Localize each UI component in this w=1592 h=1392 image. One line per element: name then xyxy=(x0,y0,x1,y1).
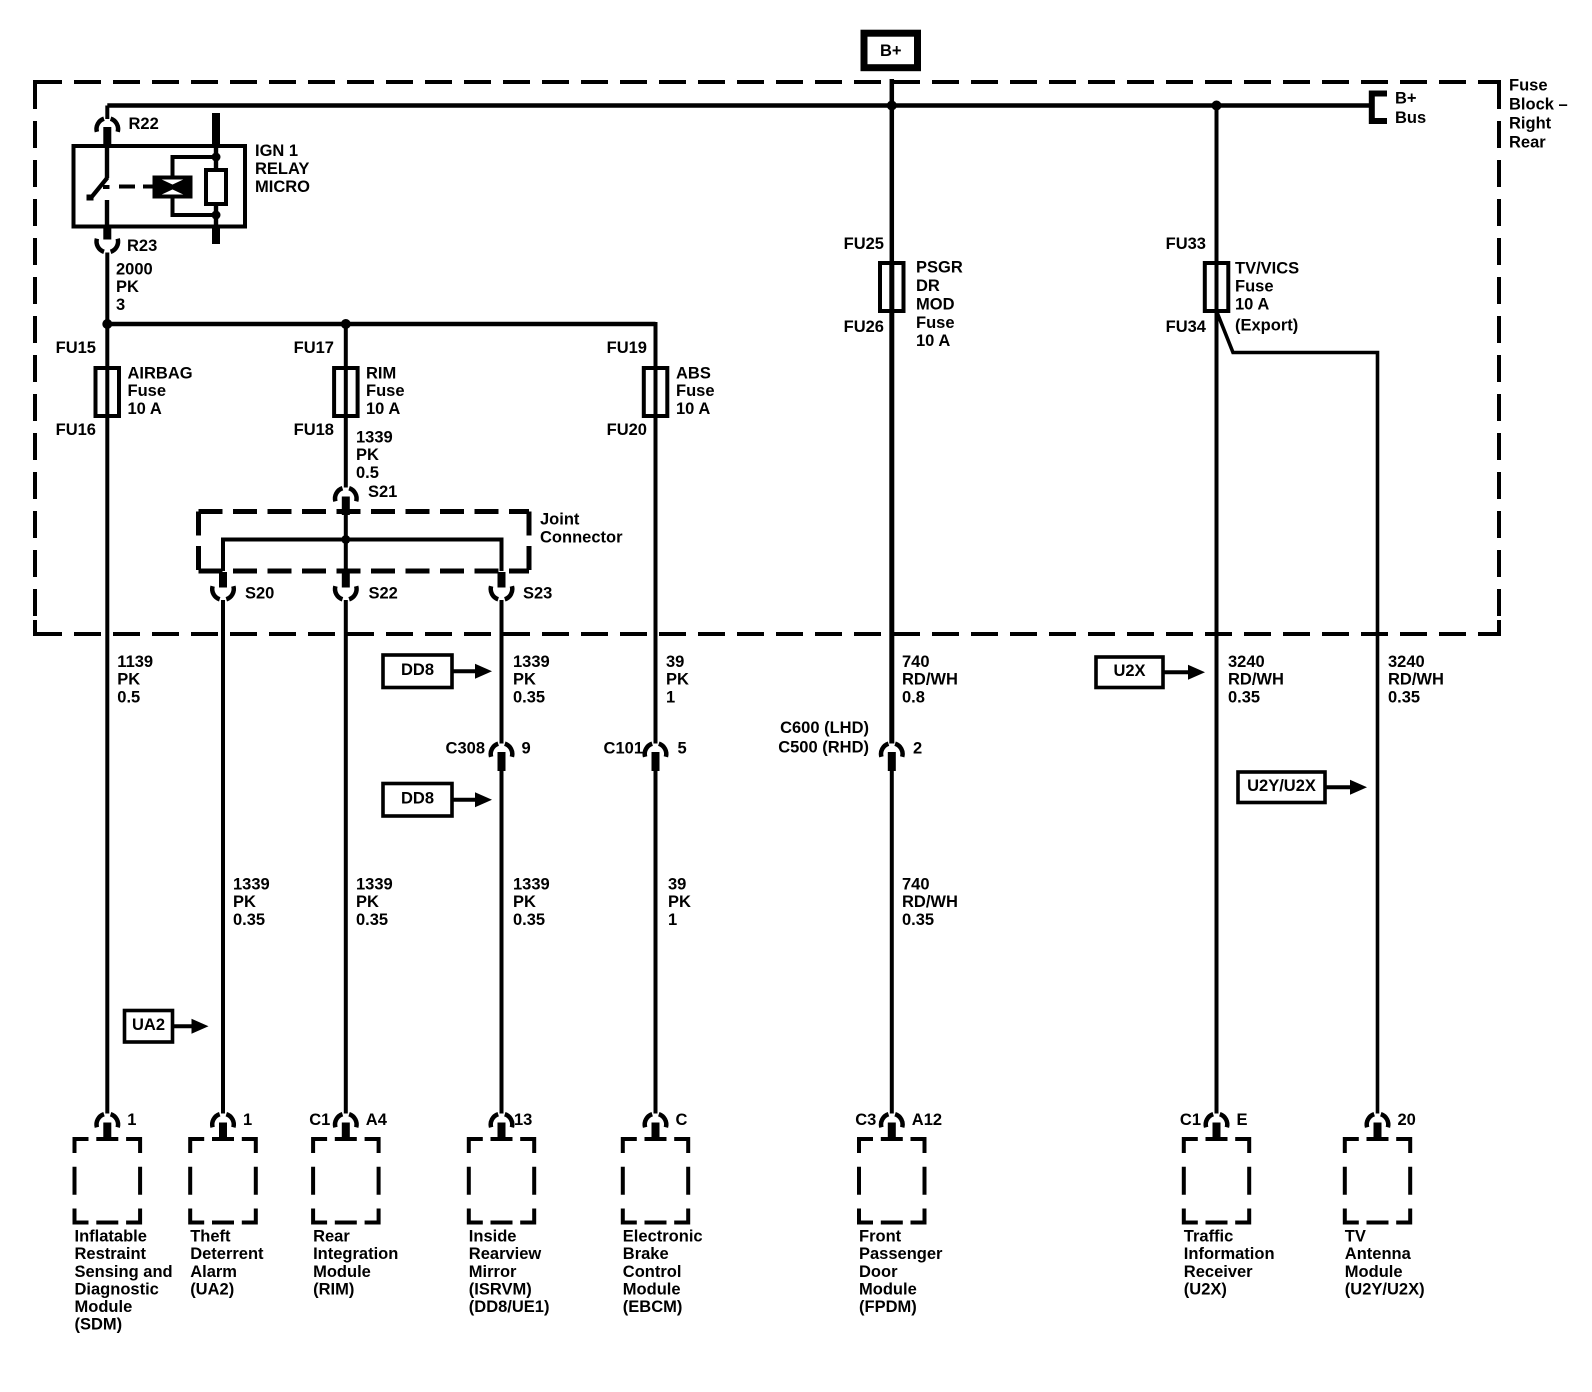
label pin 9 xyxy=(522,740,531,758)
svg-text:(EBCM): (EBCM) xyxy=(623,1298,683,1316)
svg-text:Rear: Rear xyxy=(1509,134,1546,152)
wire bus corner down to R22 xyxy=(105,106,109,120)
svg-text:PK: PK xyxy=(356,446,379,464)
svg-text:Connector: Connector xyxy=(540,529,623,547)
label Traffic Information Receiver xyxy=(1184,1228,1275,1299)
svg-text:(UA2): (UA2) xyxy=(190,1280,234,1298)
svg-text:39: 39 xyxy=(668,876,686,894)
svg-text:0.5: 0.5 xyxy=(117,688,140,706)
svg-text:1: 1 xyxy=(666,688,675,706)
label FU18 xyxy=(294,421,334,439)
svg-text:Control: Control xyxy=(623,1263,682,1281)
svg-text:C101: C101 xyxy=(604,740,643,758)
svg-text:TV: TV xyxy=(1345,1228,1366,1246)
svg-text:PK: PK xyxy=(666,671,689,689)
label FU19 xyxy=(607,339,647,357)
label FU26 xyxy=(844,318,884,336)
svg-text:RIM: RIM xyxy=(366,365,396,383)
junction coil-resistor top xyxy=(212,153,221,162)
svg-text:Fuse: Fuse xyxy=(128,382,167,400)
svg-text:RD/WH: RD/WH xyxy=(902,671,958,689)
label pin E (Traffic Information Receiver) xyxy=(1237,1111,1248,1129)
label box DD8 lower with arrow xyxy=(383,784,492,817)
label FU25 xyxy=(844,235,884,253)
label AIRBAG Fuse 10 A xyxy=(128,365,193,418)
connector pin 1 of Inflatable Restraint SDM (cap) xyxy=(97,1114,119,1140)
module box Theft Deterrent Alarm xyxy=(190,1139,256,1223)
label C1 (Rear Integration Module) xyxy=(309,1111,330,1129)
svg-text:(SDM): (SDM) xyxy=(75,1316,123,1334)
svg-text:B+: B+ xyxy=(1395,90,1417,108)
svg-text:FU25: FU25 xyxy=(844,235,884,253)
label FU34 xyxy=(1166,318,1207,336)
svg-text:RD/WH: RD/WH xyxy=(1228,671,1284,689)
label pin 5 xyxy=(678,740,687,758)
svg-text:3240: 3240 xyxy=(1228,653,1265,671)
label Fuse Block - Right Rear xyxy=(1509,77,1568,152)
svg-text:Receiver: Receiver xyxy=(1184,1263,1253,1281)
connector pin C of EBCM (cap) xyxy=(645,1114,667,1140)
svg-text:740: 740 xyxy=(902,653,930,671)
svg-text:10 A: 10 A xyxy=(1235,296,1269,314)
splice S23 (cup) xyxy=(491,572,513,599)
svg-text:(Export): (Export) xyxy=(1235,317,1298,335)
module box FPDM xyxy=(859,1139,925,1223)
label wire 39 PK 1 (lower) xyxy=(668,876,691,929)
svg-text:A4: A4 xyxy=(366,1111,388,1129)
splice S22 (cup) xyxy=(335,572,357,599)
svg-text:(DD8/UE1): (DD8/UE1) xyxy=(469,1298,550,1316)
svg-text:Sensing and: Sensing and xyxy=(75,1263,173,1281)
svg-text:Fuse: Fuse xyxy=(1235,278,1274,296)
svg-text:Antenna: Antenna xyxy=(1345,1245,1412,1263)
svg-text:DR: DR xyxy=(916,277,940,295)
svg-text:MICRO: MICRO xyxy=(255,178,310,196)
label FU17 xyxy=(294,339,334,357)
svg-text:Restraint: Restraint xyxy=(75,1245,147,1263)
svg-text:13: 13 xyxy=(514,1111,532,1129)
junction branch at FU17 xyxy=(341,319,351,329)
svg-text:Diagnostic: Diagnostic xyxy=(75,1280,159,1298)
svg-text:C: C xyxy=(676,1111,688,1129)
svg-text:PK: PK xyxy=(116,278,139,296)
svg-text:DD8: DD8 xyxy=(401,661,434,679)
svg-text:0.35: 0.35 xyxy=(902,911,934,929)
wire FU33 feed from bus xyxy=(1215,106,1219,314)
svg-text:Block –: Block – xyxy=(1509,96,1568,114)
module box EBCM xyxy=(623,1139,688,1223)
label wire 740 RD/WH 0.35 xyxy=(902,876,958,929)
svg-text:ABS: ABS xyxy=(676,365,711,383)
wire joint bus down to S22 xyxy=(344,540,348,572)
label pin 1 (Inflatable Restraint SDM) xyxy=(127,1111,136,1129)
svg-text:R22: R22 xyxy=(129,115,159,133)
module box Inside Rearview Mirror xyxy=(469,1139,534,1223)
label wire 1339 PK 0.35 (col3) xyxy=(356,876,393,929)
wire fuse feed branch horizontal xyxy=(107,322,655,327)
wire FU34 to traffic information receiver xyxy=(1215,263,1219,1114)
svg-text:FU20: FU20 xyxy=(607,421,647,439)
connector pin R22 (cap) xyxy=(97,119,119,146)
label PSGR DR MOD Fuse 10 A xyxy=(916,259,963,351)
splice S21 (cap) xyxy=(335,488,357,515)
fuse block - right rear dashed border xyxy=(35,82,1499,634)
svg-text:FU18: FU18 xyxy=(294,421,334,439)
label C101 xyxy=(604,740,643,758)
junction bus / FU33 branch xyxy=(1212,101,1222,111)
wire C101 to EBCM xyxy=(654,771,658,1114)
svg-text:Mirror: Mirror xyxy=(469,1263,517,1281)
svg-text:Electronic: Electronic xyxy=(623,1228,703,1246)
svg-text:0.35: 0.35 xyxy=(513,688,545,706)
label RIM Fuse 10 A xyxy=(366,365,405,418)
label wire 2000 PK 3 xyxy=(116,261,153,314)
splice S20 (cup) xyxy=(212,572,234,599)
connector C101 (cap) xyxy=(645,744,667,771)
svg-text:AIRBAG: AIRBAG xyxy=(128,365,193,383)
svg-text:PK: PK xyxy=(668,893,691,911)
wire branch corner to C101 (through FU19) xyxy=(654,322,658,744)
label EBCM xyxy=(623,1228,703,1316)
svg-text:1: 1 xyxy=(127,1111,136,1129)
label S22 xyxy=(369,585,398,603)
svg-text:U2X: U2X xyxy=(1113,662,1145,680)
svg-text:UA2: UA2 xyxy=(132,1016,165,1034)
svg-text:TV/VICS: TV/VICS xyxy=(1235,260,1299,278)
svg-text:C1: C1 xyxy=(309,1111,330,1129)
B+ Bus bracket symbol xyxy=(1372,94,1387,122)
svg-text:0.35: 0.35 xyxy=(1388,688,1420,706)
svg-text:740: 740 xyxy=(902,876,930,894)
svg-text:PK: PK xyxy=(233,893,256,911)
svg-text:1139: 1139 xyxy=(117,653,153,671)
svg-text:Integration: Integration xyxy=(313,1245,398,1263)
wire C600 to FPDM xyxy=(890,771,894,1114)
svg-text:MOD: MOD xyxy=(916,295,955,313)
svg-text:Fuse: Fuse xyxy=(1509,77,1548,95)
svg-text:Module: Module xyxy=(859,1280,917,1298)
label Inflatable Restraint SDM xyxy=(75,1228,173,1334)
svg-text:PSGR: PSGR xyxy=(916,259,963,277)
wire B+ vertical feed xyxy=(890,79,895,311)
label R23 xyxy=(127,237,157,255)
svg-text:C3: C3 xyxy=(855,1111,876,1129)
wire S20 to theft deterrent alarm xyxy=(221,600,225,1114)
svg-text:(ISRVM): (ISRVM) xyxy=(469,1280,532,1298)
label Theft Deterrent Alarm xyxy=(190,1228,264,1299)
svg-text:0.5: 0.5 xyxy=(356,464,379,482)
svg-text:R23: R23 xyxy=(127,237,157,255)
svg-text:1: 1 xyxy=(243,1111,252,1129)
svg-text:FU16: FU16 xyxy=(56,421,96,439)
label FU16 xyxy=(56,421,96,439)
svg-text:S21: S21 xyxy=(368,483,397,501)
label box DD8 upper with arrow xyxy=(383,655,492,688)
svg-text:Traffic: Traffic xyxy=(1184,1228,1234,1246)
label pin 13 (Inside Rearview Mirror) xyxy=(514,1111,532,1129)
svg-text:Module: Module xyxy=(313,1263,371,1281)
svg-text:Information: Information xyxy=(1184,1245,1275,1263)
svg-text:PK: PK xyxy=(117,671,140,689)
svg-text:PK: PK xyxy=(513,893,536,911)
svg-text:Front: Front xyxy=(859,1228,902,1246)
svg-text:S22: S22 xyxy=(369,585,398,603)
svg-text:C600 (LHD): C600 (LHD) xyxy=(780,719,869,737)
svg-text:C500 (RHD): C500 (RHD) xyxy=(778,739,869,757)
svg-text:S23: S23 xyxy=(523,585,552,603)
label pin C (EBCM) xyxy=(676,1111,688,1129)
svg-text:3: 3 xyxy=(116,296,125,314)
svg-text:FU33: FU33 xyxy=(1166,235,1206,253)
svg-text:9: 9 xyxy=(522,740,531,758)
wire branch to SDM (through FU15) xyxy=(105,324,109,1114)
svg-text:Rearview: Rearview xyxy=(469,1245,542,1263)
svg-text:Right: Right xyxy=(1509,115,1552,133)
junction branch at FU15 xyxy=(102,319,112,329)
fuse FU15/FU16 AIRBAG xyxy=(96,368,120,416)
label box U2Y/U2X with arrow xyxy=(1238,772,1367,803)
wire branch to S21 (through FU17) xyxy=(344,324,348,488)
label pin 2 xyxy=(913,740,922,758)
label pin 20 (TV Antenna Module) xyxy=(1398,1111,1416,1129)
svg-text:PK: PK xyxy=(513,671,536,689)
svg-text:PK: PK xyxy=(356,893,379,911)
wire C308 to ISRVM xyxy=(500,771,504,1114)
label S21 xyxy=(368,483,397,501)
junction coil-resistor bottom xyxy=(212,211,221,220)
svg-text:0.8: 0.8 xyxy=(902,688,925,706)
label wire 1339 PK 0.5 xyxy=(356,429,393,482)
svg-text:RD/WH: RD/WH xyxy=(902,893,958,911)
svg-text:A12: A12 xyxy=(912,1111,942,1129)
svg-text:Alarm: Alarm xyxy=(190,1263,237,1281)
svg-text:3240: 3240 xyxy=(1388,653,1425,671)
fuse FU19/FU20 ABS xyxy=(644,368,668,416)
junction B+ / bus xyxy=(887,101,897,111)
svg-text:C1: C1 xyxy=(1180,1111,1201,1129)
svg-text:FU34: FU34 xyxy=(1166,318,1207,336)
svg-text:Inflatable: Inflatable xyxy=(75,1228,147,1246)
module box TV Antenna Module xyxy=(1345,1139,1410,1223)
label wire 740 RD/WH 0.8 xyxy=(902,653,958,706)
svg-text:Theft: Theft xyxy=(190,1228,231,1246)
label FU20 xyxy=(607,421,647,439)
svg-text:B+: B+ xyxy=(880,42,902,60)
connector pin 13 of Inside Rearview Mirror (cap) xyxy=(491,1114,513,1140)
label C600 (LHD) C500 (RHD) xyxy=(778,719,869,757)
wire B+ bus horizontal xyxy=(107,103,1369,108)
svg-text:10 A: 10 A xyxy=(128,400,162,418)
svg-text:5: 5 xyxy=(678,740,687,758)
svg-text:(U2Y/U2X): (U2Y/U2X) xyxy=(1345,1280,1425,1298)
svg-text:2000: 2000 xyxy=(116,261,153,279)
svg-text:39: 39 xyxy=(666,653,684,671)
label S23 xyxy=(523,585,552,603)
svg-text:Brake: Brake xyxy=(623,1245,669,1263)
svg-text:10 A: 10 A xyxy=(916,332,950,350)
label C3 (FPDM) xyxy=(855,1111,876,1129)
wire S21 to joint bus xyxy=(344,514,348,541)
svg-text:FU15: FU15 xyxy=(56,339,96,357)
connector pin 20 of TV Antenna Module (cap) xyxy=(1367,1114,1389,1140)
connector pin 1 of Theft Deterrent Alarm (cap) xyxy=(212,1114,234,1140)
label box U2X with arrow xyxy=(1096,657,1205,688)
connector C600/C500 (cap) xyxy=(881,744,903,771)
fuse FU25/FU26 PSGR DR MOD xyxy=(880,263,904,311)
label wire 3240 RD/WH 0.35 (col7) xyxy=(1228,653,1284,706)
svg-text:Fuse: Fuse xyxy=(916,314,955,332)
label Joint Connector xyxy=(540,511,623,547)
svg-text:FU19: FU19 xyxy=(607,339,647,357)
wire joint connector internal bus xyxy=(223,540,502,572)
svg-text:DD8: DD8 xyxy=(401,790,434,808)
label C308 xyxy=(446,740,485,758)
label IGN 1 RELAY MICRO xyxy=(255,142,310,196)
label ABS Fuse 10 A xyxy=(676,365,715,418)
svg-text:2: 2 xyxy=(913,740,922,758)
svg-text:Fuse: Fuse xyxy=(676,382,715,400)
connector pin A4 of Rear Integration Module (cap) xyxy=(335,1114,357,1140)
label wire 1339 PK 0.35 (col2) xyxy=(233,876,270,929)
svg-text:0.35: 0.35 xyxy=(1228,688,1260,706)
svg-text:10 A: 10 A xyxy=(366,400,400,418)
svg-text:1: 1 xyxy=(668,911,677,929)
svg-text:10 A: 10 A xyxy=(676,400,710,418)
svg-text:1339: 1339 xyxy=(356,876,393,894)
module box Traffic Information Receiver xyxy=(1184,1139,1249,1223)
label Inside Rearview Mirror xyxy=(469,1228,550,1316)
svg-text:Fuse: Fuse xyxy=(366,382,405,400)
svg-text:Passenger: Passenger xyxy=(859,1245,943,1263)
svg-text:FU17: FU17 xyxy=(294,339,334,357)
svg-text:C308: C308 xyxy=(446,740,485,758)
fuse FU17/FU18 RIM xyxy=(334,368,358,416)
label wire 1139 PK 0.5 xyxy=(117,653,153,706)
svg-text:FU26: FU26 xyxy=(844,318,884,336)
svg-text:1339: 1339 xyxy=(356,429,393,447)
svg-text:Module: Module xyxy=(1345,1263,1403,1281)
wire FU26 to C600 (740 RD/WH 0.8) xyxy=(889,263,894,744)
label TV/VICS Fuse 10 A (Export) xyxy=(1235,260,1299,335)
svg-text:(RIM): (RIM) xyxy=(313,1280,354,1298)
connector pin R23 (cup) xyxy=(97,239,119,252)
svg-text:IGN 1: IGN 1 xyxy=(255,142,298,160)
label FU33 xyxy=(1166,235,1206,253)
svg-text:20: 20 xyxy=(1398,1111,1416,1129)
junction joint bus at S22 xyxy=(341,535,350,544)
svg-text:Joint: Joint xyxy=(540,511,580,529)
svg-text:Bus: Bus xyxy=(1395,109,1426,127)
label pin A12 (FPDM) xyxy=(912,1111,942,1129)
svg-text:Door: Door xyxy=(859,1263,898,1281)
label C1 (Traffic Information Receiver) xyxy=(1180,1111,1201,1129)
label R22 xyxy=(129,115,159,133)
label B+ Bus xyxy=(1395,90,1426,128)
svg-text:Inside: Inside xyxy=(469,1228,517,1246)
label wire 1339 PK 0.35 (col4 lower) xyxy=(513,876,550,929)
fuse FU33/FU34 TV/VICS xyxy=(1205,263,1229,311)
label pin A4 (Rear Integration Module) xyxy=(366,1111,388,1129)
label pin 1 (Theft Deterrent Alarm) xyxy=(243,1111,252,1129)
relay IGN 1 MICRO (box, switch, coil, resistor) xyxy=(74,113,246,244)
svg-text:0.35: 0.35 xyxy=(513,911,545,929)
connector C308 (cap) xyxy=(491,744,513,771)
svg-text:RELAY: RELAY xyxy=(255,160,309,178)
label wire 39 PK 1 (upper) xyxy=(666,653,689,706)
svg-text:S20: S20 xyxy=(245,585,274,603)
wire S22 to RIM module xyxy=(344,600,348,1114)
svg-text:0.35: 0.35 xyxy=(356,911,388,929)
svg-text:Module: Module xyxy=(623,1280,681,1298)
label FPDM xyxy=(859,1228,943,1316)
svg-text:1339: 1339 xyxy=(513,653,550,671)
module box Rear Integration Module xyxy=(313,1139,379,1223)
connector pin E of Traffic Information Receiver (cap) xyxy=(1206,1114,1228,1140)
svg-text:0.35: 0.35 xyxy=(233,911,265,929)
label wire 1339 PK 0.35 (col4 upper) xyxy=(513,653,550,706)
wire S23 to C308 xyxy=(500,600,504,744)
relay pin stub to R23 xyxy=(103,227,111,240)
connector pin A12 of FPDM (cap) xyxy=(881,1114,903,1140)
label TV Antenna Module xyxy=(1345,1228,1425,1299)
wire R23 down to branch xyxy=(105,253,109,327)
module box Inflatable Restraint SDM xyxy=(75,1139,141,1223)
wire FU34 diagonal branch to TV antenna xyxy=(1217,311,1378,1114)
svg-text:E: E xyxy=(1237,1111,1248,1129)
svg-text:Rear: Rear xyxy=(313,1228,350,1246)
svg-text:Deterrent: Deterrent xyxy=(190,1245,264,1263)
label box UA2 with arrow xyxy=(125,1011,209,1043)
label FU15 xyxy=(56,339,96,357)
svg-text:1339: 1339 xyxy=(233,876,270,894)
svg-text:(FPDM): (FPDM) xyxy=(859,1298,917,1316)
label Rear Integration Module xyxy=(313,1228,398,1299)
svg-text:Module: Module xyxy=(75,1298,133,1316)
joint connector dashed box xyxy=(199,512,530,572)
label S20 xyxy=(245,585,274,603)
svg-text:(U2X): (U2X) xyxy=(1184,1280,1227,1298)
svg-text:RD/WH: RD/WH xyxy=(1388,671,1444,689)
power feed B+ box xyxy=(864,33,918,67)
svg-text:U2Y/U2X: U2Y/U2X xyxy=(1247,777,1316,795)
svg-text:1339: 1339 xyxy=(513,876,550,894)
label wire 3240 RD/WH 0.35 (col8) xyxy=(1388,653,1444,706)
